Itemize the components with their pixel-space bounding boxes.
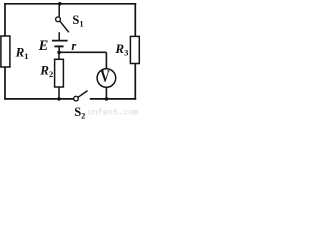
wire voltmeter top lead <box>105 52 107 68</box>
voltmeter V <box>97 67 116 88</box>
resistor R2 <box>55 52 64 99</box>
junction node battery-R2-voltmeter <box>57 51 61 55</box>
wire bottom bus right <box>90 98 136 100</box>
svg-text:R3: R3 <box>114 41 128 58</box>
svg-text:E: E <box>38 38 49 54</box>
wire top bus <box>4 3 136 5</box>
junction node top bus <box>58 2 62 6</box>
wire mid bus to voltmeter <box>59 51 106 53</box>
resistor R3 <box>130 36 139 63</box>
wire stub top bus to S1 <box>58 4 60 17</box>
junction node voltmeter-bottom bus <box>105 97 109 101</box>
svg-text:R2: R2 <box>39 62 53 79</box>
wire voltmeter bottom lead <box>105 87 107 99</box>
svg-text:V: V <box>100 67 110 86</box>
junction node R2-bottom bus <box>57 97 61 101</box>
wire right branch upper <box>134 3 136 37</box>
wire left branch upper <box>4 3 6 37</box>
svg-text:unfen5.com: unfen5.com <box>88 108 139 118</box>
svg-text:S2: S2 <box>74 105 85 120</box>
switch S1 <box>56 17 69 32</box>
battery E <box>52 32 68 52</box>
svg-text:S1: S1 <box>72 13 83 29</box>
wire bottom bus left <box>4 98 73 100</box>
switch S2 <box>74 91 88 101</box>
resistor R1 <box>1 36 10 67</box>
wire right branch lower <box>134 63 136 99</box>
svg-text:r: r <box>71 39 76 53</box>
wire left branch lower <box>4 67 6 100</box>
svg-text:R1: R1 <box>15 45 29 62</box>
